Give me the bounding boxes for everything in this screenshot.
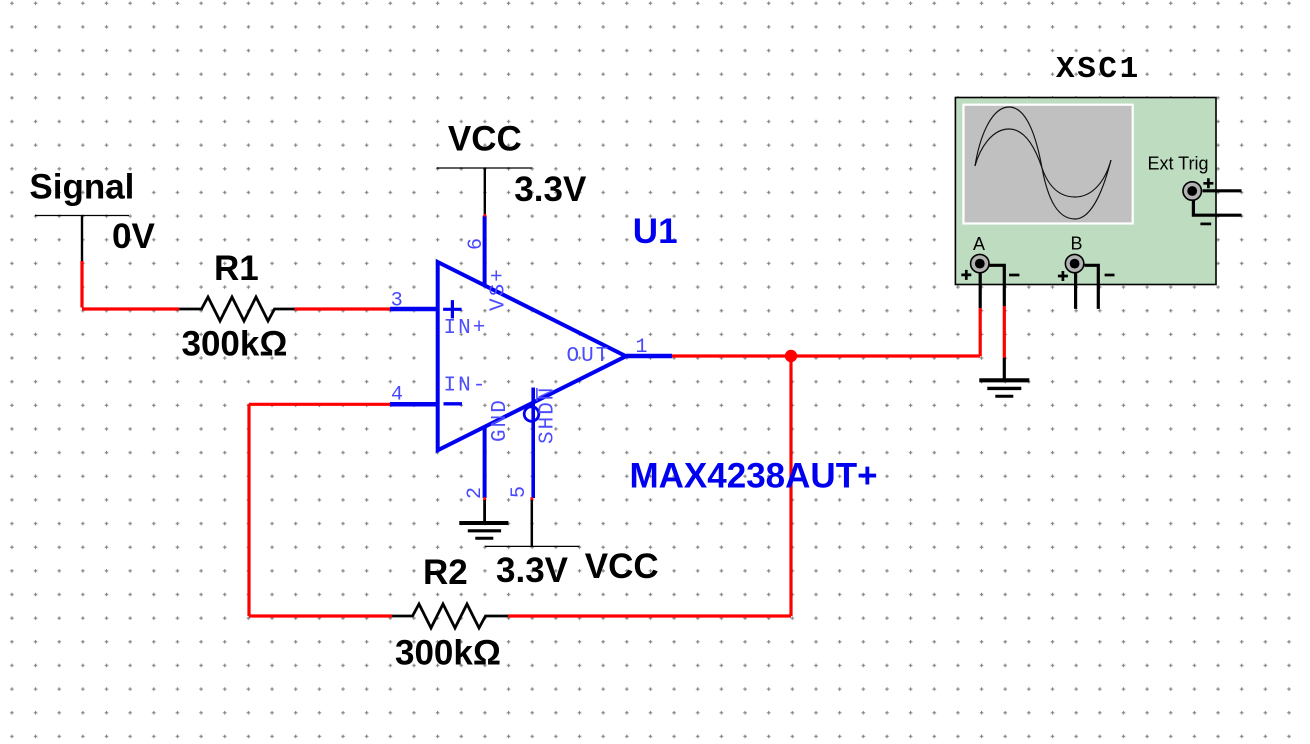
svg-text:6: 6 bbox=[465, 238, 488, 250]
svg-text:MAX4238AUT+: MAX4238AUT+ bbox=[630, 457, 878, 496]
svg-text:VS+: VS+ bbox=[488, 267, 511, 311]
svg-text:Signal: Signal bbox=[29, 167, 134, 206]
svg-text:SHDN: SHDN bbox=[537, 386, 560, 444]
svg-text:GND: GND bbox=[489, 398, 512, 442]
svg-text:VCC: VCC bbox=[585, 547, 659, 586]
svg-text:3.3V: 3.3V bbox=[514, 170, 587, 209]
svg-text:A: A bbox=[973, 234, 985, 254]
svg-text:VCC: VCC bbox=[448, 120, 522, 159]
svg-text:U1: U1 bbox=[633, 212, 678, 251]
svg-text:IN+: IN+ bbox=[444, 317, 488, 340]
svg-text:1: 1 bbox=[636, 336, 648, 359]
svg-text:2: 2 bbox=[464, 487, 487, 499]
svg-text:300kΩ: 300kΩ bbox=[182, 325, 288, 364]
svg-text:300kΩ: 300kΩ bbox=[395, 634, 501, 673]
svg-text:IN-: IN- bbox=[444, 375, 488, 398]
svg-text:5: 5 bbox=[508, 486, 531, 498]
svg-text:0V: 0V bbox=[112, 217, 155, 256]
svg-text:3.3V: 3.3V bbox=[496, 551, 569, 590]
svg-text:R1: R1 bbox=[214, 249, 259, 288]
svg-text:XSC1: XSC1 bbox=[1056, 52, 1141, 87]
svg-text:3: 3 bbox=[391, 289, 403, 312]
svg-text:B: B bbox=[1071, 234, 1083, 254]
svg-text:OUT: OUT bbox=[567, 345, 611, 368]
svg-text:4: 4 bbox=[391, 383, 403, 406]
svg-text:Ext Trig: Ext Trig bbox=[1148, 153, 1209, 173]
svg-text:R2: R2 bbox=[423, 553, 468, 592]
